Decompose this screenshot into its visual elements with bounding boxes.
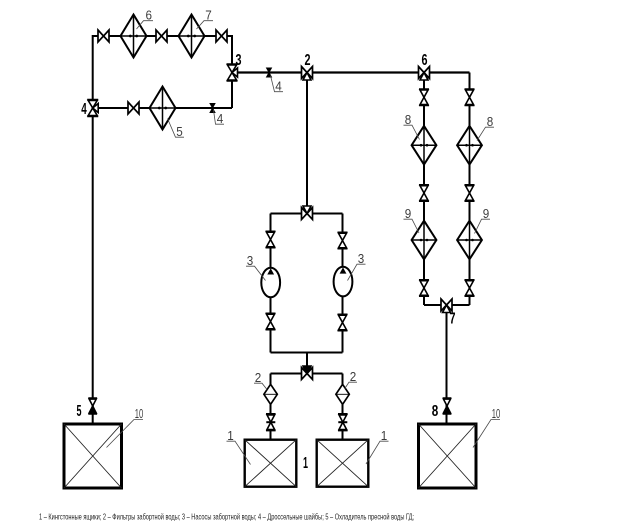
valve column A middle xyxy=(419,185,429,201)
valve column B middle xyxy=(465,185,475,201)
wire: vertical from valve 2 down to pump loop xyxy=(306,73,308,214)
svg-text:9: 9 xyxy=(405,206,412,221)
wire: pump loop right vertical xyxy=(342,214,344,353)
svg-text:4: 4 xyxy=(81,101,87,118)
svg-text:1: 1 xyxy=(303,455,308,472)
svg-text:7: 7 xyxy=(205,8,212,23)
wire: pump loop bottom to 3-way valve xyxy=(306,353,308,374)
filter 5 xyxy=(150,87,176,130)
label tank 10 left with leader xyxy=(107,406,144,448)
svg-text:8: 8 xyxy=(432,403,439,420)
svg-text:8: 8 xyxy=(405,112,412,127)
valve on top loop lower line xyxy=(128,102,139,114)
label kingston box 1 left with leader xyxy=(227,428,251,465)
valve on top loop upper line right xyxy=(216,30,227,42)
cooler tank 10 right xyxy=(419,424,477,488)
valve column B top xyxy=(465,89,475,105)
wire: pump loop top line xyxy=(271,213,343,215)
svg-text:4: 4 xyxy=(217,111,224,126)
filter 6 xyxy=(121,15,147,58)
svg-text:3: 3 xyxy=(236,52,242,69)
label filter 2 right with leader xyxy=(345,369,358,389)
label kingston box 1 right with leader xyxy=(366,428,389,464)
wire: kingston right drop xyxy=(342,374,344,441)
label cooler 9 column B with leader xyxy=(475,206,491,234)
three-way valve 7 xyxy=(441,299,452,313)
kingston valve right xyxy=(338,414,348,431)
svg-text:3: 3 xyxy=(247,253,254,268)
cooler 8 column A xyxy=(412,126,437,165)
svg-text:9: 9 xyxy=(483,206,490,221)
cooler tank 10 left xyxy=(64,424,122,488)
wire: column A vertical x=424 xyxy=(423,73,425,306)
svg-text:1: 1 xyxy=(381,428,388,443)
cooler 8 column B xyxy=(457,126,482,165)
label cooler 8 column A with leader xyxy=(404,112,420,140)
label orifice 4 main with leader xyxy=(271,76,284,94)
kingston valve left xyxy=(266,414,276,431)
label orifice 4 lower with leader xyxy=(214,110,225,126)
three-way valve 4 xyxy=(87,100,98,117)
valve on top loop upper line left xyxy=(98,30,109,42)
label filter 7 with leader xyxy=(197,8,214,30)
valve column A top xyxy=(419,89,429,105)
svg-text:4: 4 xyxy=(275,79,282,94)
svg-text:2: 2 xyxy=(305,52,311,69)
valve above right pump xyxy=(338,232,348,248)
three-way valve 3 xyxy=(227,64,238,81)
label pump 3 right with leader xyxy=(348,251,366,281)
label cooler 8 column B with leader xyxy=(477,114,494,141)
check valve 8 xyxy=(443,398,452,414)
svg-text:5: 5 xyxy=(77,403,82,420)
filter 2 left xyxy=(264,384,277,404)
valve between filters 6 and 7 xyxy=(156,30,167,42)
kingston box 1 left xyxy=(245,440,297,487)
svg-text:8: 8 xyxy=(487,114,494,129)
three-way valve 2 xyxy=(302,67,313,81)
label filter 5 with leader xyxy=(168,119,185,140)
svg-text:6: 6 xyxy=(422,52,428,69)
wire: top loop upper line xyxy=(93,35,232,37)
cooler 9 column B xyxy=(457,221,482,260)
label tank 10 right with leader xyxy=(473,406,500,448)
cooler 9 column A xyxy=(412,221,437,260)
three-way valve below pump loop xyxy=(302,366,313,380)
wire: pump loop bottom line xyxy=(271,352,343,354)
wire: main horizontal line y=72.5 xyxy=(232,71,470,73)
wire: right columns bottom line y=305 xyxy=(424,304,470,306)
label pump 3 left with leader xyxy=(246,253,266,281)
svg-text:1 – Кингстонные ящики; 2 – Фил: 1 – Кингстонные ящики; 2 – Фильтры забор… xyxy=(39,513,414,522)
three-way valve 6 xyxy=(419,67,430,81)
label filter 2 left with leader xyxy=(254,370,267,390)
wire: drop from valve 7 to right tank xyxy=(446,305,448,423)
orifice 4 on lower loop line xyxy=(210,103,215,112)
filter 7 xyxy=(179,15,205,58)
wire: loop right vertical x=232 xyxy=(231,35,233,108)
svg-text:10: 10 xyxy=(492,406,501,421)
wire: top loop lower line xyxy=(93,107,232,109)
check valve 5 xyxy=(88,398,97,414)
svg-text:2: 2 xyxy=(350,369,357,384)
wire: column B vertical x=469.5 xyxy=(469,73,471,306)
pump 3 left xyxy=(261,268,280,298)
svg-text:1: 1 xyxy=(227,428,234,443)
wire: pump loop left vertical xyxy=(270,214,272,353)
kingston box 1 right xyxy=(317,440,369,487)
wire: kingston header line xyxy=(271,373,343,375)
pump 3 right xyxy=(334,267,353,297)
svg-text:5: 5 xyxy=(176,124,183,139)
svg-text:7: 7 xyxy=(450,311,456,328)
svg-text:10: 10 xyxy=(135,406,144,421)
three-way valve above pump loop xyxy=(302,206,313,220)
valve column B bottom xyxy=(465,280,475,296)
label filter 6 with leader xyxy=(137,8,154,30)
valve above left pump xyxy=(266,231,276,247)
orifice 4 on main line xyxy=(266,68,271,77)
wire: left vertical line x=93 from loop to left tank xyxy=(92,35,94,423)
valve column A bottom xyxy=(419,280,429,296)
wire: kingston left drop xyxy=(270,374,272,441)
valve below left pump xyxy=(266,313,276,329)
svg-text:3: 3 xyxy=(358,251,365,266)
valve below right pump xyxy=(338,314,348,330)
svg-text:2: 2 xyxy=(255,370,262,385)
svg-text:6: 6 xyxy=(146,8,153,23)
filter 2 right xyxy=(336,384,349,404)
label cooler 9 column A with leader xyxy=(404,206,420,233)
